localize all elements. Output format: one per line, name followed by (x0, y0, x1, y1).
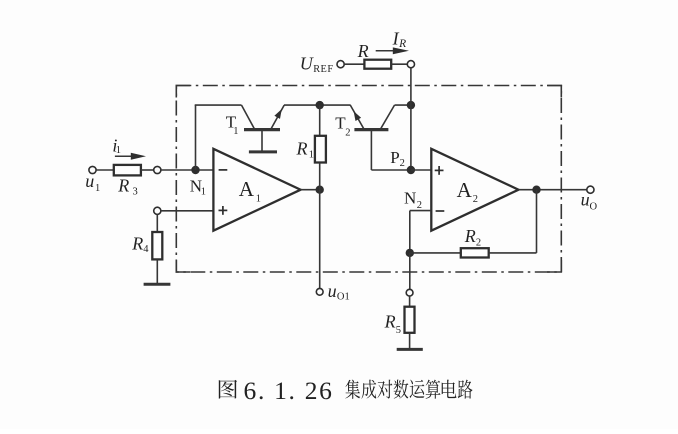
svg-text:A: A (457, 178, 473, 202)
wire R5 to ground (409, 333, 411, 348)
svg-text:U: U (300, 54, 314, 74)
svg-text:1: 1 (233, 126, 238, 137)
svg-text:R: R (131, 234, 143, 254)
node A1 output (316, 186, 324, 194)
resistor R1 (315, 136, 326, 163)
wire P2 to A2 + input (411, 169, 431, 171)
wire top rail right (395, 104, 411, 106)
wire top rail left (195, 104, 242, 106)
A1 minus sign (219, 169, 228, 171)
svg-text:R: R (464, 226, 476, 246)
A2 minus sign (436, 210, 445, 212)
resistor R (364, 60, 391, 69)
wire N1 vertical (195, 105, 197, 170)
current arrow i1 (115, 155, 133, 157)
svg-text:3: 3 (133, 187, 138, 198)
wire pin to A1 + input (161, 210, 214, 212)
transistor T2 (350, 105, 411, 170)
op-amp A1 (213, 149, 300, 231)
svg-text:4: 4 (143, 244, 149, 255)
pin (input) (154, 166, 161, 173)
svg-text:1: 1 (116, 145, 121, 156)
op-amp A2 (431, 149, 518, 231)
resistor R2 (461, 248, 489, 257)
wire R2 to output node (489, 252, 537, 254)
wire N2 down (409, 211, 411, 253)
svg-text:2: 2 (473, 194, 478, 205)
svg-text:u: u (328, 281, 337, 301)
wire node to R1 (319, 105, 321, 136)
wire pin to A1 inverting input (161, 169, 214, 171)
terminal uO (587, 186, 594, 193)
wire A2 output (519, 189, 587, 191)
wire down to uO1 terminal (319, 190, 321, 289)
wire A1 output (301, 189, 320, 191)
svg-text:P: P (390, 148, 399, 167)
svg-text:O1: O1 (337, 291, 350, 302)
svg-text:R: R (398, 38, 406, 50)
pin (R5) (406, 289, 413, 296)
svg-text:u: u (581, 190, 590, 210)
svg-text:1: 1 (95, 183, 100, 194)
svg-text:2: 2 (400, 158, 405, 169)
svg-text:R: R (296, 139, 308, 159)
transistor T1 (242, 105, 285, 151)
svg-text:O: O (590, 201, 598, 212)
svg-text:2: 2 (345, 128, 350, 139)
svg-text:2: 2 (417, 200, 422, 211)
svg-text:R: R (357, 41, 369, 61)
node P2 (407, 166, 415, 174)
svg-text:5: 5 (396, 325, 401, 336)
svg-text:REF: REF (313, 64, 333, 75)
wire A2 minus input (410, 210, 432, 212)
wire pin to R5 (409, 296, 411, 307)
svg-text:u: u (85, 171, 94, 191)
wire pin down to collector rail (410, 68, 412, 170)
svg-text:2: 2 (476, 237, 481, 248)
terminal u1 (89, 166, 96, 173)
svg-text:1: 1 (309, 150, 314, 161)
resistor R4 (152, 232, 162, 259)
terminal uO1 (316, 288, 323, 295)
svg-text:1: 1 (201, 187, 206, 198)
wire R to pin (391, 63, 407, 65)
svg-text:R: R (117, 176, 129, 196)
svg-text:R: R (384, 312, 396, 332)
wire node down to pin (409, 253, 411, 289)
wire R4 to ground (156, 259, 158, 283)
resistor R5 (405, 307, 415, 333)
svg-text:A: A (239, 177, 255, 201)
wire node to R2 (410, 252, 461, 254)
node N1 (191, 166, 199, 174)
wire top rail middle (284, 104, 351, 106)
resistor R3 (114, 165, 141, 176)
wire pin to R4 (156, 214, 158, 232)
wire u1 to R3 (96, 169, 114, 171)
node N2/R2 (406, 249, 414, 257)
pin (A1 + input) (154, 207, 161, 214)
svg-text:N: N (404, 189, 416, 208)
ground (R4) (144, 283, 171, 286)
svg-text:1: 1 (256, 194, 261, 205)
svg-text:6. 1. 26: 6. 1. 26 (244, 376, 334, 405)
ground (T1 base) (249, 150, 277, 153)
node (T2 collector) (407, 101, 415, 109)
ground (R5) (397, 348, 423, 351)
wire R1 to A1 output node (319, 163, 321, 190)
wire R3 to pin (141, 169, 154, 171)
node (R1 top) (316, 101, 324, 109)
IC boundary (dash-dot box) (176, 86, 561, 273)
A1 plus sign (219, 209, 228, 211)
caption (219, 380, 237, 399)
pin (reference) (407, 61, 414, 68)
terminal U_REF (337, 61, 344, 68)
A2 plus sign (435, 169, 444, 171)
node A2 output (532, 186, 540, 194)
current arrow I_R (376, 50, 395, 52)
wire U_REF to R (344, 63, 364, 65)
